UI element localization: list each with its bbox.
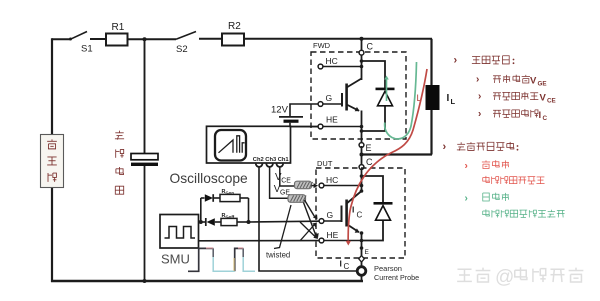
wire FWD diode branch — [362, 61, 386, 89]
junction midpoint to inductor return — [360, 153, 364, 157]
junction node top rail to collector spine — [360, 37, 364, 41]
svg-text:›: › — [478, 109, 481, 120]
arrow VGE to HE DUT — [304, 203, 316, 235]
wire collector spine FWD — [361, 39, 363, 80]
red current path arrow switch conduction — [348, 69, 427, 241]
svg-text:C: C — [344, 262, 350, 271]
node HE FWD emitter sense — [318, 124, 323, 129]
svg-text:›: › — [454, 55, 458, 67]
junction capacitor to bottom rail — [143, 279, 147, 283]
svg-text:R2: R2 — [228, 21, 241, 32]
wire Ch2 to Pearson probe — [259, 167, 357, 272]
switch S2 — [176, 32, 196, 40]
svg-text:Pearson: Pearson — [374, 264, 402, 273]
resistor RGon — [220, 194, 240, 201]
svg-text:›: › — [465, 193, 468, 204]
svg-text:Goff: Goff — [226, 214, 235, 219]
resistor R1 — [106, 34, 128, 46]
svg-text:Gon: Gon — [226, 190, 235, 195]
inductor L (load) — [426, 85, 440, 110]
svg-text:L: L — [451, 97, 456, 106]
item current through switch red — [485, 176, 487, 183]
diode FWD freewheeling — [376, 88, 395, 91]
svg-text:HE: HE — [326, 115, 338, 125]
svg-text:HC: HC — [326, 56, 338, 66]
wire emitter return SMU to HE DUT — [199, 240, 320, 242]
node HE DUT emitter sense — [319, 238, 324, 243]
junction DUT HC tap — [360, 184, 364, 188]
svg-text:›: › — [465, 161, 468, 172]
DUT device dashed outline — [316, 168, 405, 258]
svg-text:HC: HC — [326, 175, 338, 185]
wire G FWD to gate bar — [323, 103, 342, 105]
svg-text:FWD: FWD — [313, 41, 331, 50]
voltage source 高压源 (HV source) box — [41, 135, 64, 188]
wire Ch3 to VGE probe — [270, 167, 288, 199]
resistor R2 — [222, 34, 244, 46]
svg-text:C: C — [543, 115, 548, 122]
node E terminal DUT diamond — [359, 256, 365, 263]
SMU source box — [160, 215, 199, 249]
svg-text:@: @ — [495, 267, 514, 288]
junction gate network left — [199, 220, 203, 224]
double pulse waveform trace — [188, 248, 243, 271]
resistor RGoff — [221, 218, 237, 225]
arrow VGE to G DUT — [305, 200, 315, 217]
watermark zhihu logo text — [457, 268, 471, 270]
junction HE DUT / diode bottom — [360, 239, 364, 243]
svg-text:R1: R1 — [112, 22, 125, 33]
svg-text:S1: S1 — [81, 44, 93, 55]
junction DUT diode top — [360, 174, 364, 178]
svg-text:G: G — [327, 210, 334, 220]
junction FWD diode top — [360, 59, 364, 63]
wire HE FWD to emitter spine — [323, 126, 362, 128]
svg-text:S2: S2 — [176, 44, 188, 55]
svg-text:›: › — [478, 91, 481, 102]
green current arrow through FWD diode — [386, 79, 388, 101]
Pearson current probe ring — [357, 267, 366, 276]
wire E to Pearson probe — [361, 262, 363, 267]
green freewheel current curve — [385, 62, 417, 139]
diode turn-off path — [205, 218, 207, 226]
junction HE FWD — [360, 125, 364, 129]
svg-text:CE: CE — [281, 178, 291, 185]
probe VCE twisted lead — [295, 181, 312, 189]
transistor FWD IGBT — [341, 93, 343, 107]
svg-text:C: C — [367, 42, 374, 52]
node E terminal FWD — [359, 143, 364, 148]
wire SMU output to network — [199, 221, 206, 223]
wire HE DUT to emitter spine — [324, 240, 362, 242]
node C terminal DUT — [359, 165, 364, 170]
wire FWD emitter spine down — [361, 111, 363, 147]
junction node top rail / capacitor branch — [143, 37, 147, 41]
svg-text:C: C — [357, 211, 363, 220]
label 超级电容 — [115, 132, 123, 134]
wire probe to bottom rail — [361, 276, 363, 282]
FWD device dashed outline — [311, 52, 406, 139]
svg-text:DUT: DUT — [317, 159, 333, 168]
wire capacitor branch lower — [144, 166, 146, 281]
oscilloscope connector Ch3 — [266, 164, 273, 167]
svg-text:V: V — [540, 93, 547, 104]
oscilloscope connector Ch2 — [256, 164, 263, 167]
node G DUT gate terminal — [319, 219, 324, 224]
diode DUT antiparallel — [374, 202, 393, 205]
transistor DUT IGBT — [341, 206, 343, 223]
junction gate network right — [247, 220, 251, 224]
wire G DUT to gate bar — [324, 220, 342, 222]
node HC DUT with wire to collector — [319, 183, 324, 188]
wire bottom rail — [51, 280, 363, 282]
SMU square wave icon — [165, 227, 196, 239]
junction FWD HC tap — [360, 65, 364, 69]
twisted pair crossover — [300, 222, 316, 237]
wire DUT emitter spine down — [361, 232, 363, 256]
svg-text:I: I — [539, 110, 542, 121]
svg-text:twisted: twisted — [266, 251, 290, 260]
svg-text:12V: 12V — [271, 105, 289, 116]
svg-text:›: › — [443, 141, 447, 153]
switch S1 — [69, 38, 72, 41]
wire inductor branch down — [430, 39, 432, 85]
node HC FWD with wire to collector — [318, 64, 323, 69]
svg-text:Ch2: Ch2 — [253, 157, 264, 163]
wire gate drive to G DUT — [249, 220, 320, 223]
svg-text:E: E — [366, 143, 372, 153]
wire left vertical from HV source to bottom rail — [51, 187, 53, 282]
wire 12V positive to G FWD — [290, 104, 318, 116]
oscilloscope screen icon — [215, 130, 246, 161]
svg-text:CE: CE — [547, 98, 556, 105]
wire RGon branch risers — [200, 198, 202, 222]
svg-text:SMU: SMU — [161, 252, 190, 267]
svg-text:HE: HE — [327, 230, 339, 240]
svg-text:›: › — [476, 74, 479, 85]
capacitor 超级电容 (supercap) — [131, 154, 158, 160]
battery 12V — [279, 116, 303, 118]
wire left vertical from top rail to HV source — [51, 38, 53, 135]
wire top rail left segment — [52, 38, 70, 40]
wire S2 to R2 — [199, 38, 222, 40]
wire RGoff to junction — [215, 221, 221, 223]
probe VGE twisted lead — [288, 195, 306, 203]
svg-text:Ch3: Ch3 — [265, 157, 277, 163]
svg-text:I: I — [340, 259, 342, 269]
svg-text:G: G — [326, 93, 333, 103]
wire HE FWD to oscilloscope top — [291, 126, 319, 128]
wire capacitor branch upper — [144, 39, 146, 154]
svg-text:Oscilloscope: Oscilloscope — [170, 171, 249, 186]
svg-text:Current Probe: Current Probe — [374, 273, 419, 282]
svg-text:GE: GE — [538, 81, 547, 88]
arrow VCE to HC DUT — [312, 185, 315, 187]
svg-text:I: I — [352, 205, 354, 215]
wire R2 to collector node and inductor branch — [244, 38, 432, 40]
svg-text:I: I — [447, 93, 450, 104]
svg-text:V: V — [530, 76, 537, 87]
wire DUT diode branch — [362, 176, 384, 203]
diode turn-on path — [201, 197, 205, 199]
item current through diode green — [485, 209, 487, 216]
wire midpoint spine — [361, 146, 363, 192]
wire Ch1 to VCE probe — [280, 167, 295, 187]
oscilloscope connector Ch1 — [277, 164, 284, 167]
wire R1 to S2 with junction to capacitor branch — [128, 38, 177, 40]
junction FWD diode bottom — [360, 129, 364, 133]
wire RGon to junction — [240, 197, 249, 199]
wire inductor to midpoint node — [430, 110, 432, 155]
wire S1 to R1 — [90, 38, 106, 40]
node C terminal FWD — [359, 50, 364, 55]
svg-text:Ch1: Ch1 — [278, 157, 290, 163]
wire 12V negative to HE FWD — [289, 123, 291, 127]
svg-text:E: E — [365, 249, 370, 256]
node G FWD gate terminal — [318, 102, 323, 107]
oscilloscope box — [207, 126, 291, 163]
